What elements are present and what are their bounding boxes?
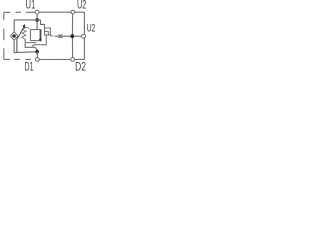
wire: drain from pilot box bottom to outlet: [32, 35, 46, 46]
valve offset-square lower edge: [26, 42, 36, 44]
svg-text:D2: D2: [75, 59, 86, 72]
node (top-right open circle): [71, 10, 75, 14]
pilot box: [45, 28, 51, 35]
wire: right vertical U2-D2: [83, 12, 85, 59]
junction dot C: [70, 34, 74, 38]
adjustment arrow: [17, 24, 25, 52]
wire: stub from junction B down to port D1: [36, 52, 38, 58]
junction dot B: [35, 50, 39, 54]
port U2 (right side circle): [82, 34, 86, 38]
port D1 (bottom-left circle): [36, 58, 40, 62]
svg-text:U1: U1: [25, 0, 35, 12]
pilot box internal divider lines: [45, 31, 49, 35]
wire: stub from port U1 down into valve: [36, 14, 38, 30]
wire: pilot line with orifice to mid junction: [55, 35, 71, 37]
wire: dashed pilot segment right of pilot box: [50, 35, 53, 37]
wire: spring anchor / outlet path to bottom junction: [25, 39, 37, 52]
background: [0, 0, 100, 72]
relief valve U1 main box: [30, 30, 41, 41]
junction dot A: [35, 18, 39, 22]
spring (adjustable): [22, 27, 30, 39]
port U1 (top-left circle): [35, 10, 39, 14]
enclosure (dashed manifold boundary): [4, 12, 35, 59]
wire: left branch below check valve to bottom junction: [14, 40, 35, 52]
wire: bottom rail D1-D2: [39, 58, 84, 60]
svg-text:D1: D1: [24, 61, 33, 72]
svg-text:U2: U2: [87, 23, 96, 35]
wire: mid vertical net between rails: [71, 14, 73, 58]
orifice R1 (restriction marks): [58, 35, 62, 38]
check valve V1 (diamond with ball): [10, 32, 17, 41]
flow arrow inside valve: [39, 30, 42, 42]
wire: pilot line from junction to port U2: [72, 35, 81, 37]
wire: internal top line: [14, 19, 40, 21]
wire: top rail U1-U2: [39, 11, 85, 13]
wire: pilot staircase from junction A to pilot box: [41, 20, 45, 28]
svg-text:U2: U2: [77, 0, 86, 11]
wire: left branch down to check valve: [13, 20, 15, 32]
node (bottom-right open circle): [71, 58, 75, 62]
